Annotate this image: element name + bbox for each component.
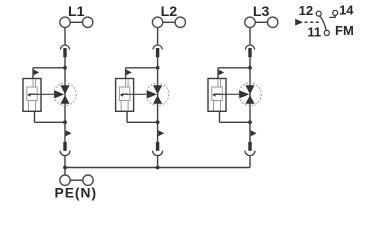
svg-text:PE(N): PE(N) (55, 185, 98, 200)
svg-text:L3: L3 (253, 4, 270, 20)
svg-text:L1: L1 (68, 4, 85, 20)
svg-text:11: 11 (307, 25, 321, 40)
svg-text:14: 14 (339, 3, 354, 18)
svg-text:FM: FM (335, 23, 354, 38)
svg-text:L2: L2 (161, 4, 178, 20)
svg-text:12: 12 (299, 3, 313, 18)
